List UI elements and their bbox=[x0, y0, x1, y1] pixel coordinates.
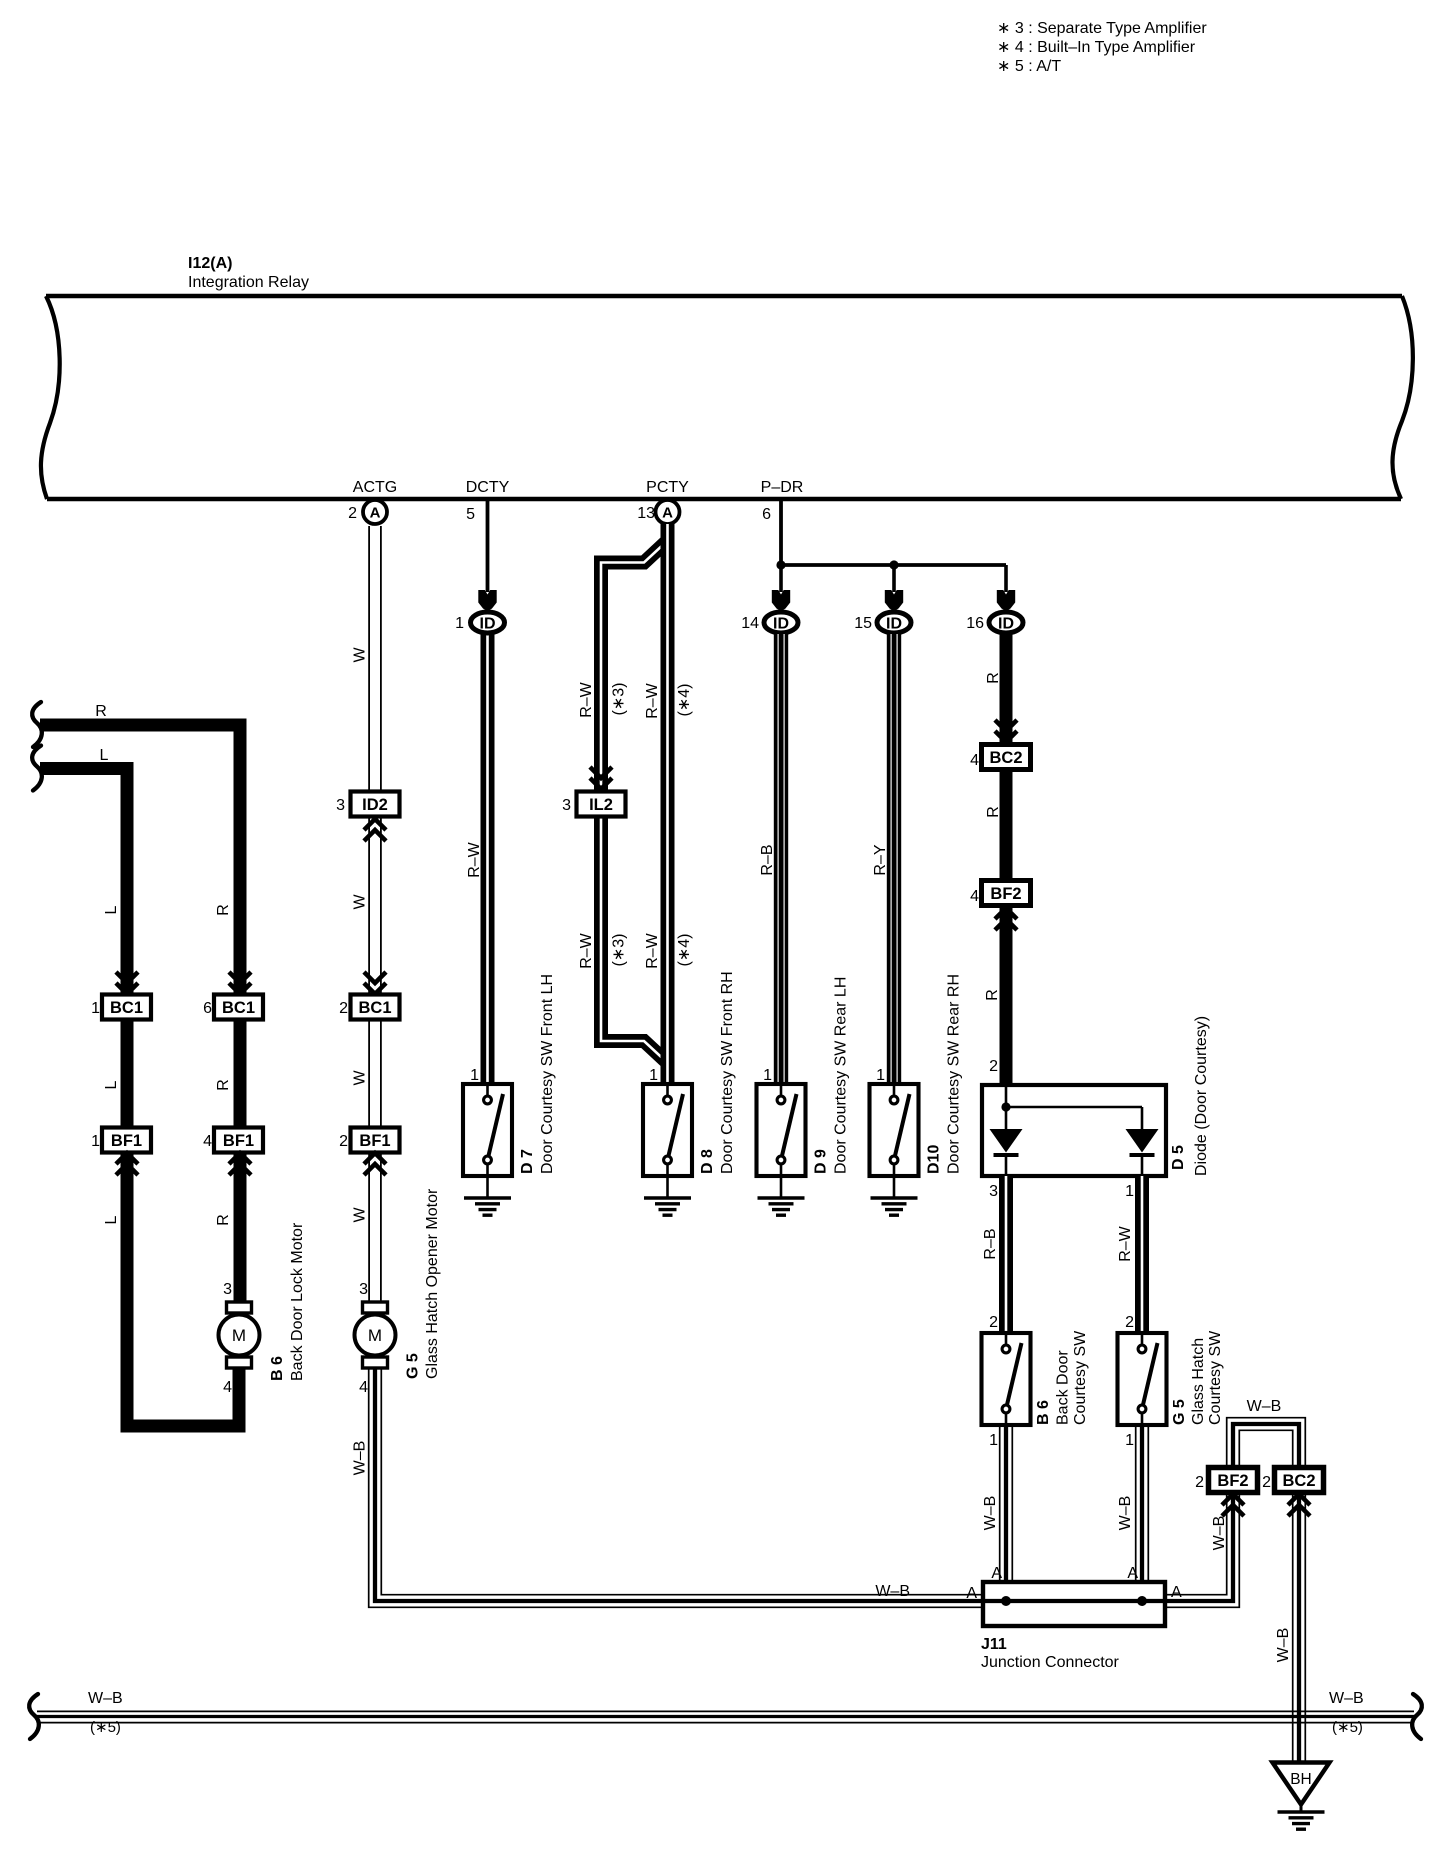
wire R ID16 to BC2 bbox=[985, 634, 1006, 743]
wire R-W DCTY to D7 bbox=[466, 630, 488, 1084]
wire R BF1 to motor pin 3 bbox=[215, 1152, 240, 1301]
svg-text:W–B: W–B bbox=[875, 1583, 910, 1600]
svg-text:BF2: BF2 bbox=[990, 885, 1021, 903]
wire R BC2 to BF2 bbox=[985, 770, 1006, 881]
svg-text:13: 13 bbox=[637, 505, 655, 522]
wire R-W (*3) branch through IL2 bbox=[578, 542, 666, 1061]
svg-text:W–B: W–B bbox=[351, 1441, 368, 1476]
svg-text:W–B: W–B bbox=[88, 1690, 123, 1707]
wire R-Y ID15 to D10 bbox=[872, 634, 897, 1084]
wire W-B J11 to BF2-2 riser bbox=[875, 1493, 1239, 1607]
svg-text:W–B: W–B bbox=[1329, 1690, 1364, 1707]
diode element left bbox=[990, 1129, 1023, 1155]
switch D10 Door Courtesy SW Rear RH bbox=[870, 974, 963, 1198]
svg-text:D 5: D 5 bbox=[1170, 1145, 1187, 1170]
wire R BC1 to BF1 bbox=[215, 1007, 240, 1140]
svg-text:P–DR: P–DR bbox=[761, 479, 804, 496]
svg-text:A: A bbox=[370, 505, 381, 522]
svg-text:2: 2 bbox=[989, 1058, 998, 1075]
chevron into BC2-2 bbox=[1288, 1494, 1310, 1516]
svg-text:1: 1 bbox=[91, 1000, 100, 1017]
svg-text:5: 5 bbox=[466, 506, 475, 523]
wire R-B ID14 to D9 bbox=[759, 634, 784, 1084]
connector ID pin 14 bbox=[741, 612, 798, 633]
wire P-DR junction line to ID pins 14 15 16 bbox=[781, 565, 1006, 592]
connector ID pin 1 bbox=[455, 612, 504, 633]
wire R-W (*4) PCTY to D8 bbox=[644, 524, 693, 1084]
svg-text:ID: ID bbox=[998, 615, 1014, 632]
svg-text:Back Door Lock Motor: Back Door Lock Motor bbox=[289, 1222, 306, 1381]
connector BF1 pin 1 bbox=[91, 1128, 151, 1153]
chevron out of BF1-2 bbox=[364, 1153, 386, 1175]
pin PCTY 13 (A) bbox=[637, 479, 689, 524]
svg-text:2: 2 bbox=[1125, 1314, 1134, 1331]
svg-text:Glass Hatch: Glass Hatch bbox=[1190, 1338, 1207, 1425]
connector BC2 pin 4 bbox=[970, 745, 1030, 770]
wire R from torn end to BC1-6 bbox=[32, 702, 240, 996]
svg-text:W–B: W–B bbox=[1117, 1496, 1134, 1531]
svg-text:ID: ID bbox=[773, 615, 789, 632]
wire R BF2 to diode D5 pin 2 bbox=[984, 907, 1006, 1086]
svg-text:R–W: R–W bbox=[466, 841, 483, 877]
switch B6 Back Door Courtesy SW bbox=[982, 1330, 1090, 1425]
diode D5 internal wiring bbox=[1006, 1087, 1142, 1176]
svg-text:4: 4 bbox=[970, 888, 979, 905]
svg-text:2: 2 bbox=[989, 1314, 998, 1331]
svg-text:R: R bbox=[215, 904, 232, 916]
connector BC1 pin 6 bbox=[203, 995, 263, 1020]
ground D10 bbox=[871, 1198, 918, 1215]
wire W-B ground rail (*5) bbox=[29, 1690, 1422, 1739]
svg-text:D 9: D 9 bbox=[813, 1149, 830, 1174]
svg-text:(∗5): (∗5) bbox=[90, 1719, 121, 1736]
svg-text:1: 1 bbox=[1125, 1183, 1134, 1200]
svg-text:BC1: BC1 bbox=[110, 999, 143, 1017]
connector ID pin 16 bbox=[966, 612, 1023, 633]
svg-text:ID: ID bbox=[480, 615, 496, 632]
svg-text:D 7: D 7 bbox=[519, 1149, 536, 1174]
svg-text:W: W bbox=[351, 647, 368, 663]
chevron into BF2-2 bbox=[1222, 1494, 1244, 1516]
wire W-B bridge BF2 to BC2 bbox=[1227, 1398, 1306, 1467]
svg-text:(∗4): (∗4) bbox=[676, 934, 693, 967]
svg-text:Courtesy SW: Courtesy SW bbox=[1207, 1330, 1224, 1425]
svg-text:L: L bbox=[103, 1080, 120, 1089]
wire R-B D5 pin 3 to B6 courtesy switch bbox=[982, 1176, 1006, 1334]
wire label L left column bbox=[103, 905, 120, 914]
svg-text:W–B: W–B bbox=[1247, 1398, 1282, 1415]
svg-text:4: 4 bbox=[203, 1133, 212, 1150]
chevron out of BF1-1 bbox=[116, 1153, 138, 1175]
svg-text:W–B: W–B bbox=[1275, 1628, 1292, 1663]
switch D9 Door Courtesy SW Rear LH bbox=[757, 977, 850, 1198]
junction dot J11 right bbox=[1137, 1596, 1147, 1606]
svg-text:Integration Relay: Integration Relay bbox=[188, 274, 309, 291]
arrow into ID pin 1 bbox=[478, 590, 496, 610]
connector BF1 pin 2 bbox=[339, 1128, 399, 1153]
svg-text:IL2: IL2 bbox=[589, 796, 613, 814]
svg-text:4: 4 bbox=[359, 1379, 368, 1396]
svg-text:R–W: R–W bbox=[644, 682, 661, 718]
svg-text:1: 1 bbox=[91, 1133, 100, 1150]
svg-text:BF2: BF2 bbox=[1217, 1472, 1248, 1490]
svg-text:2: 2 bbox=[339, 1133, 348, 1150]
svg-text:Back Door: Back Door bbox=[1055, 1350, 1072, 1425]
svg-text:ID: ID bbox=[886, 615, 902, 632]
svg-text:∗ 4 : Built–In Type Amplifier: ∗ 4 : Built–In Type Amplifier bbox=[997, 39, 1196, 56]
svg-text:W: W bbox=[351, 894, 368, 910]
connector BF1 pin 4 bbox=[203, 1128, 263, 1153]
wire W ACTG to Glass Hatch Opener Motor bbox=[351, 526, 381, 1301]
svg-text:R–B: R–B bbox=[982, 1228, 999, 1259]
connector BF2 pin 2 bbox=[1195, 1468, 1257, 1493]
svg-text:BF1: BF1 bbox=[359, 1132, 390, 1150]
svg-text:2: 2 bbox=[1262, 1474, 1271, 1491]
svg-text:6: 6 bbox=[203, 1000, 212, 1017]
diode block D5 Diode (Door Courtesy) bbox=[982, 1016, 1210, 1176]
svg-text:(∗5): (∗5) bbox=[1332, 1719, 1363, 1736]
svg-text:PCTY: PCTY bbox=[646, 479, 689, 496]
svg-text:I12(A): I12(A) bbox=[188, 255, 232, 272]
svg-text:4: 4 bbox=[223, 1379, 232, 1396]
connector BC2 pin 2 bbox=[1262, 1468, 1323, 1493]
svg-text:Door Courtesy SW Front LH: Door Courtesy SW Front LH bbox=[539, 974, 556, 1174]
svg-text:(∗3): (∗3) bbox=[610, 934, 627, 967]
svg-text:ACTG: ACTG bbox=[353, 479, 397, 496]
svg-text:BC1: BC1 bbox=[358, 999, 391, 1017]
svg-text:A: A bbox=[1171, 1584, 1182, 1601]
svg-text:A: A bbox=[991, 1565, 1002, 1582]
chevron into BC1-6 bbox=[229, 972, 251, 994]
svg-text:BC2: BC2 bbox=[1282, 1472, 1315, 1490]
svg-text:Glass Hatch Opener Motor: Glass Hatch Opener Motor bbox=[424, 1188, 441, 1379]
svg-text:M: M bbox=[232, 1326, 246, 1345]
svg-text:BF1: BF1 bbox=[111, 1132, 142, 1150]
chevron out of BF1-4 bbox=[229, 1153, 251, 1175]
svg-text:B 6: B 6 bbox=[269, 1356, 286, 1381]
switch D8 Door Courtesy SW Front RH bbox=[643, 971, 736, 1198]
junction dot J11 left bbox=[1001, 1596, 1011, 1606]
svg-text:2: 2 bbox=[1195, 1474, 1204, 1491]
junction dot D5 bbox=[1001, 1102, 1010, 1111]
svg-text:W–B: W–B bbox=[1211, 1516, 1228, 1551]
svg-text:R: R bbox=[985, 806, 1002, 818]
svg-text:A: A bbox=[662, 505, 673, 522]
motor B6 Back Door Lock Motor bbox=[219, 1222, 307, 1396]
svg-text:G 5: G 5 bbox=[1171, 1399, 1188, 1425]
svg-text:DCTY: DCTY bbox=[466, 479, 510, 496]
svg-text:∗ 5 : A/T: ∗ 5 : A/T bbox=[997, 58, 1061, 75]
svg-text:R–W: R–W bbox=[578, 681, 595, 717]
svg-text:R: R bbox=[984, 989, 1001, 1001]
ground D9 bbox=[758, 1198, 805, 1215]
motor G5 Glass Hatch Opener Motor bbox=[355, 1188, 442, 1396]
chevron into IL2 bbox=[590, 767, 612, 789]
chevron out of BF2-4 bbox=[995, 908, 1017, 930]
svg-text:A: A bbox=[966, 1585, 977, 1602]
svg-text:2: 2 bbox=[339, 1000, 348, 1017]
ground BH bbox=[1273, 1763, 1330, 1830]
connector BC1 pin 2 bbox=[339, 995, 399, 1020]
svg-text:R–B: R–B bbox=[759, 844, 776, 875]
pin DCTY 5 bbox=[466, 479, 510, 592]
wire L from torn end to BC1-1 bbox=[32, 746, 127, 997]
svg-text:Door Courtesy SW Front RH: Door Courtesy SW Front RH bbox=[719, 971, 736, 1174]
svg-text:R: R bbox=[215, 1214, 232, 1226]
svg-text:6: 6 bbox=[762, 506, 771, 523]
svg-text:R–W: R–W bbox=[578, 932, 595, 968]
svg-text:Door Courtesy SW Rear RH: Door Courtesy SW Rear RH bbox=[946, 974, 963, 1174]
pin ACTG 2 (A) bbox=[348, 479, 397, 524]
svg-text:1: 1 bbox=[1125, 1432, 1134, 1449]
svg-text:2: 2 bbox=[348, 505, 357, 522]
ground D8 bbox=[644, 1198, 691, 1215]
svg-text:Junction Connector: Junction Connector bbox=[981, 1654, 1120, 1671]
svg-text:14: 14 bbox=[741, 615, 759, 632]
svg-text:R: R bbox=[95, 703, 107, 720]
svg-text:G 5: G 5 bbox=[405, 1353, 422, 1379]
svg-text:R: R bbox=[985, 672, 1002, 684]
svg-text:15: 15 bbox=[854, 615, 872, 632]
svg-text:W: W bbox=[351, 1207, 368, 1223]
junction dot P-DR 15 bbox=[889, 560, 898, 569]
wire R-W D5 pin 1 to G5 courtesy switch bbox=[1117, 1176, 1142, 1334]
junction connector J11 bbox=[981, 1582, 1165, 1671]
svg-text:R: R bbox=[215, 1079, 232, 1091]
svg-text:D10: D10 bbox=[926, 1145, 943, 1174]
wire W-B motor G5 to junction connector J11 bbox=[351, 1369, 985, 1607]
svg-text:R–Y: R–Y bbox=[872, 844, 889, 875]
wire W-B G5 switch pin 1 to J11 bbox=[1117, 1425, 1149, 1601]
svg-text:3: 3 bbox=[359, 1281, 368, 1298]
svg-text:3: 3 bbox=[989, 1183, 998, 1200]
connector IL2 pin 3 bbox=[562, 792, 625, 817]
chevron into BC1-2 bbox=[364, 972, 386, 994]
svg-text:1: 1 bbox=[876, 1067, 885, 1084]
chevron out of ID2 bbox=[364, 819, 386, 841]
arrow into ID pin 16 bbox=[997, 590, 1015, 610]
svg-text:B 6: B 6 bbox=[1035, 1400, 1052, 1425]
svg-text:1: 1 bbox=[763, 1067, 772, 1084]
svg-text:L: L bbox=[103, 1215, 120, 1224]
svg-text:4: 4 bbox=[970, 752, 979, 769]
wire L BF1 to bottom and motor return bbox=[103, 1152, 239, 1426]
svg-text:W–B: W–B bbox=[982, 1496, 999, 1531]
svg-text:3: 3 bbox=[562, 797, 571, 814]
svg-text:J11: J11 bbox=[981, 1636, 1007, 1653]
chevron into BC2-4 bbox=[995, 720, 1017, 742]
svg-text:BF1: BF1 bbox=[223, 1132, 254, 1150]
wire L BC1 to BF1 bbox=[103, 1007, 127, 1140]
svg-text:M: M bbox=[368, 1326, 382, 1345]
wire W-B B6 switch pin 1 to J11 bbox=[982, 1425, 1013, 1601]
chevron into BC1-1 bbox=[116, 972, 138, 994]
pin P-DR 6 bbox=[761, 479, 804, 565]
ground D7 bbox=[464, 1198, 511, 1215]
connector BC1 pin 1 bbox=[91, 995, 151, 1020]
legend notes *3 *4 *5 bbox=[997, 20, 1207, 75]
svg-text:L: L bbox=[100, 747, 109, 764]
arrow into ID pin 14 bbox=[772, 590, 790, 610]
svg-text:3: 3 bbox=[336, 797, 345, 814]
svg-text:∗ 3 : Separate Type Amplifier: ∗ 3 : Separate Type Amplifier bbox=[997, 20, 1207, 37]
wire W-B BC2 to ground BH bbox=[1275, 1493, 1306, 1763]
svg-text:L: L bbox=[103, 905, 120, 914]
svg-text:Courtesy SW: Courtesy SW bbox=[1072, 1330, 1089, 1425]
svg-text:R–W: R–W bbox=[1117, 1225, 1134, 1261]
svg-text:1: 1 bbox=[470, 1067, 479, 1084]
diode element right bbox=[1126, 1129, 1159, 1155]
svg-text:BC2: BC2 bbox=[989, 749, 1022, 767]
svg-text:ID2: ID2 bbox=[362, 796, 388, 814]
switch D7 Door Courtesy SW Front LH bbox=[463, 974, 556, 1198]
svg-text:Door Courtesy SW Rear LH: Door Courtesy SW Rear LH bbox=[833, 977, 850, 1174]
connector ID2 pin 3 bbox=[336, 792, 399, 817]
svg-text:BC1: BC1 bbox=[222, 999, 255, 1017]
svg-text:1: 1 bbox=[455, 615, 464, 632]
connector ID pin 15 bbox=[854, 612, 911, 633]
svg-text:1: 1 bbox=[649, 1067, 658, 1084]
junction dot P-DR 14 bbox=[776, 560, 785, 569]
svg-text:(∗3): (∗3) bbox=[610, 683, 627, 716]
svg-text:D 8: D 8 bbox=[699, 1149, 716, 1174]
switch G5 Glass Hatch Courtesy SW bbox=[1118, 1330, 1225, 1425]
wire label R right column bbox=[215, 904, 232, 916]
svg-text:(∗4): (∗4) bbox=[676, 684, 693, 717]
svg-text:BH: BH bbox=[1290, 1771, 1312, 1788]
connector BF2 pin 4 bbox=[970, 881, 1030, 906]
svg-text:16: 16 bbox=[966, 615, 984, 632]
IC I12(A) Integration Relay box bbox=[41, 255, 1413, 499]
arrow into ID pin 15 bbox=[885, 590, 903, 610]
svg-text:R–W: R–W bbox=[644, 932, 661, 968]
svg-text:W: W bbox=[351, 1070, 368, 1086]
svg-text:3: 3 bbox=[223, 1281, 232, 1298]
svg-text:Diode (Door Courtesy): Diode (Door Courtesy) bbox=[1193, 1016, 1210, 1176]
svg-text:1: 1 bbox=[989, 1432, 998, 1449]
svg-text:A: A bbox=[1127, 1565, 1138, 1582]
